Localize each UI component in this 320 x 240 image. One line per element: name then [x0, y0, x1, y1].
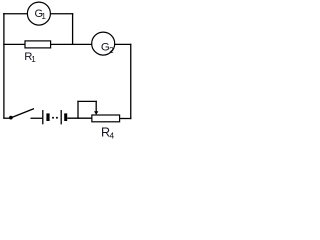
svg-text:1: 1 — [31, 55, 36, 64]
wire from battery to rheostat body — [67, 117, 92, 119]
switch pivot dot — [9, 116, 13, 120]
battery ellipsis dot 1 — [52, 117, 54, 119]
rheostat wiper branch horizontal — [77, 100, 97, 102]
battery cell 1 short thick plate — [46, 113, 49, 121]
svg-text:2: 2 — [109, 45, 114, 55]
svg-text:4: 4 — [109, 131, 114, 140]
wire right vertical — [130, 44, 132, 119]
rheostat wiper branch vertical from bottom wire junction — [77, 101, 79, 119]
rheostat R4 resistor body — [92, 115, 120, 122]
switch blade (open) — [11, 109, 34, 118]
galvanometer G1 — [27, 2, 50, 25]
wire from rheostat body to right vertical — [120, 118, 132, 120]
wire from switch gap to battery — [31, 117, 43, 119]
battery cell 1 long plate — [42, 110, 44, 124]
wire bottom-left stub to switch dot — [3, 117, 9, 119]
wire top-left horizontal segment — [3, 13, 28, 15]
wire middle horizontal between R1 and G2 — [51, 43, 92, 45]
wire middle horizontal right of G2 — [115, 43, 132, 45]
wire middle horizontal left of R1 — [3, 43, 25, 45]
galvanometer G2 — [92, 32, 115, 55]
svg-text:1: 1 — [41, 12, 46, 21]
battery ellipsis dot 2 — [56, 117, 58, 119]
label R4 — [101, 125, 114, 140]
battery cell 2 long plate — [60, 110, 62, 124]
rheostat wiper arrow shaft — [95, 101, 97, 112]
wire left vertical — [3, 13, 5, 119]
battery cell 2 short thick plate — [64, 113, 67, 121]
wire top-right horizontal segment — [50, 13, 73, 15]
label R1 — [24, 51, 36, 64]
wire vertical from G1 loop down to middle wire — [72, 13, 74, 45]
rheostat wiper arrowhead — [94, 111, 98, 115]
resistor R1 body — [25, 41, 51, 48]
